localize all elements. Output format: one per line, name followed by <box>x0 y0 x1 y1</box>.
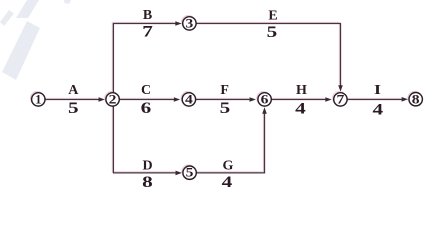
svg-text:4: 4 <box>222 174 233 191</box>
watermark speck <box>64 0 71 4</box>
wire F shaft (node4 to node6) <box>196 99 250 101</box>
node 1 <box>32 93 45 107</box>
watermark stroke 1 (top-left) <box>0 10 14 26</box>
wire G shaft (node5 right, up to node6) <box>196 113 264 173</box>
node 4 <box>182 93 195 107</box>
node 6 <box>258 93 271 107</box>
svg-text:5: 5 <box>186 166 194 180</box>
wire H shaft (node6 to node7) <box>271 99 325 101</box>
arrowhead into node 3 <box>175 21 181 26</box>
svg-text:5: 5 <box>220 100 231 117</box>
node 2 <box>106 93 119 107</box>
arrowhead up into node 6 <box>262 107 267 113</box>
svg-text:8: 8 <box>412 92 420 106</box>
vertical wire through node 2 <box>112 24 114 173</box>
arrowhead into node 7 <box>325 97 331 102</box>
arrowhead down into node 7 <box>338 85 343 91</box>
svg-text:4: 4 <box>185 93 193 107</box>
wire A shaft (node1 to node2) <box>45 99 99 101</box>
svg-text:3: 3 <box>186 16 194 30</box>
pink chroma halo for lines <box>30 16 421 179</box>
node 3 <box>183 16 196 30</box>
node 8 <box>409 92 422 106</box>
arrowhead into node 8 <box>402 97 408 102</box>
svg-text:8: 8 <box>142 174 153 191</box>
svg-text:B: B <box>143 8 152 23</box>
svg-text:H: H <box>296 83 307 98</box>
svg-text:C: C <box>141 83 151 98</box>
svg-text:F: F <box>220 83 229 98</box>
svg-text:5: 5 <box>68 100 79 117</box>
wire D shaft (corner to node5) <box>113 172 176 174</box>
svg-text:E: E <box>268 9 277 24</box>
svg-text:4: 4 <box>373 102 384 119</box>
svg-text:6: 6 <box>261 93 269 107</box>
svg-text:2: 2 <box>109 93 117 107</box>
watermark stroke 4 (long band) <box>2 21 40 80</box>
node 5 <box>183 166 196 180</box>
svg-text:4: 4 <box>295 101 306 118</box>
svg-text:D: D <box>142 159 152 174</box>
arrowhead into node 2 <box>99 97 105 102</box>
svg-text:6: 6 <box>141 100 152 117</box>
svg-text:I: I <box>374 83 381 98</box>
arrowhead into node 5 <box>176 171 182 176</box>
wire B shaft (corner to node3) <box>113 23 176 25</box>
svg-text:5: 5 <box>267 24 278 41</box>
svg-text:7: 7 <box>337 93 345 107</box>
arrowhead into node 4 <box>174 97 180 102</box>
arrowhead into node 6 <box>250 97 256 102</box>
wire E shaft (node3 right, to corner above node7) <box>196 24 340 86</box>
svg-text:7: 7 <box>142 24 153 41</box>
svg-text:1: 1 <box>35 93 41 107</box>
svg-text:G: G <box>223 159 234 174</box>
wire C shaft (node2 to node4) <box>119 99 174 101</box>
watermark stroke 2 <box>16 0 39 18</box>
wire I shaft (node7 to node8) <box>347 99 402 101</box>
svg-text:A: A <box>68 83 79 98</box>
node 7 <box>334 93 347 107</box>
